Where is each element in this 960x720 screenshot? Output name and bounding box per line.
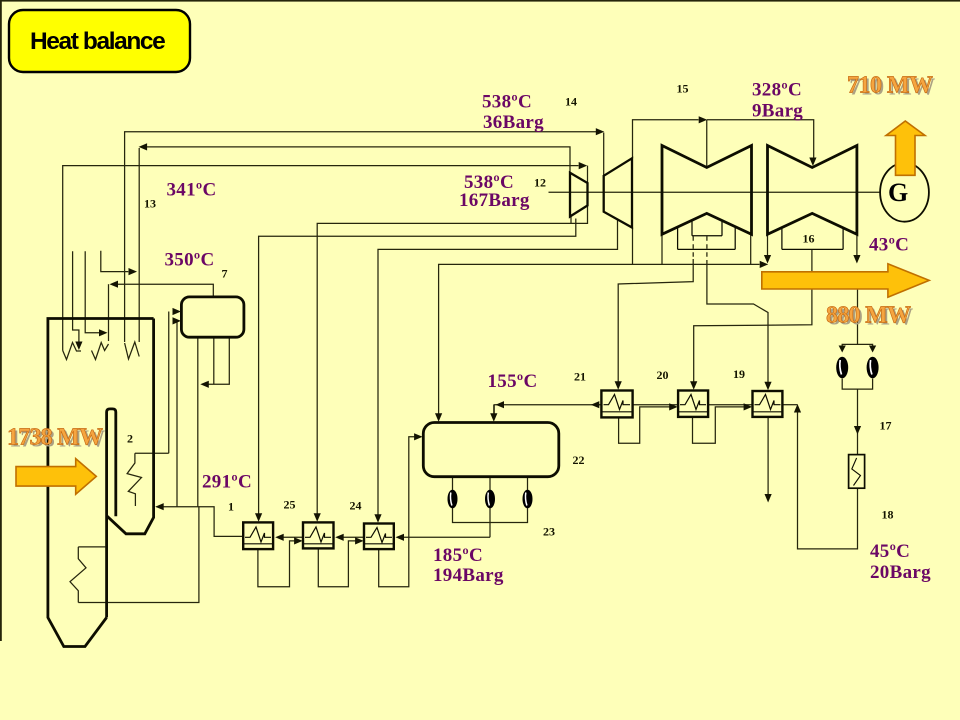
wire LP1 left corner drain (661, 234, 663, 264)
wire deaerator pump stub b (489, 477, 491, 490)
deaerator pump b (485, 490, 495, 509)
svg-text:538ºC: 538ºC (482, 92, 532, 113)
svg-text:18: 18 (882, 508, 894, 522)
arrowhead boiler stub a down (75, 342, 82, 351)
wire crossover to LP2 (707, 120, 814, 158)
wire LP2 right corner to condenser (856, 234, 858, 256)
wire feed riser to drum second (176, 321, 178, 507)
wire LP2 left corner to condenser (767, 234, 769, 256)
wire drum bottom stub b (207, 337, 229, 384)
arrowhead crossover down into LP2 (809, 158, 816, 167)
wire drum downcomer (197, 337, 199, 506)
arrowhead drain 1 into 25 (294, 537, 303, 544)
wire cold reheat horizontal (146, 147, 570, 173)
gland condenser 18 box (849, 455, 865, 489)
wire pump center discharge (489, 508, 491, 537)
wire HP exhaust riser left (570, 217, 572, 224)
svg-text:22: 22 (573, 453, 585, 467)
svg-text:155ºC: 155ºC (488, 371, 538, 392)
wire economizer riser to drum (168, 312, 170, 454)
arrowhead feed into heater 24 (396, 534, 405, 541)
arrowhead into deaerator extraction (435, 413, 442, 422)
arrowhead into heater 25 top (314, 513, 321, 522)
boiler inner wall (107, 409, 116, 618)
svg-text:15: 15 (677, 82, 689, 96)
wire heater 25 to heater 1 feed (283, 536, 304, 538)
superheater zigzag z1 (63, 343, 81, 360)
arrowhead into heater 19 top (764, 382, 771, 391)
LP2 exhaust hood (782, 228, 843, 250)
svg-text:2: 2 (127, 432, 133, 446)
arrowhead downcomer join left (200, 381, 209, 388)
waterwall zigzag z4 (70, 547, 86, 603)
wire hot reheat drop to IP inlet (603, 133, 605, 176)
svg-text:1738 MW: 1738 MW (7, 425, 103, 451)
boiler right wall and backpass funnel (107, 319, 154, 534)
arrowhead drain 24 into deaerator (414, 433, 423, 440)
arrowhead condenser pump a down (839, 346, 846, 353)
svg-text:194Barg: 194Barg (433, 565, 504, 586)
wire condenser pump manifold top (842, 344, 872, 351)
wire economizer top horizontal (135, 452, 169, 454)
wire LP1 extraction to heater 21 (618, 259, 693, 382)
wire IP extraction to heater 24 (378, 220, 618, 516)
LP heater 21 box (601, 391, 632, 418)
gland condenser internals (852, 458, 861, 486)
LP1 exhaust inner hood (692, 221, 722, 236)
condenser pump ellipse b (867, 357, 879, 379)
svg-text:19: 19 (733, 367, 745, 381)
arrow 1738 MW input (16, 459, 96, 495)
svg-text:185ºC: 185ºC (433, 545, 483, 566)
wire heater 1 drain loop (258, 541, 296, 587)
arrowhead condensate into heater 19 up (794, 404, 801, 413)
arrowhead cold reheat left (139, 143, 148, 150)
wire heater 25 drain loop (318, 541, 356, 587)
arrowhead into drum upper (173, 308, 182, 315)
IP turbine (604, 158, 632, 227)
svg-text:341ºC: 341ºC (167, 180, 217, 201)
reheater zigzag z3 (125, 342, 140, 359)
economizer zigzag 2 (127, 453, 141, 506)
arrowhead LP2 right corner down (853, 255, 860, 264)
wire LP1 extraction to heater 19 (707, 260, 768, 382)
svg-text:1: 1 (228, 500, 234, 514)
wire drum line drop into boiler (108, 284, 110, 341)
wire heater 19 inlet from right (782, 404, 797, 406)
arrowhead LP2 left corner down (764, 255, 771, 264)
waterwall zigzag top shelf (78, 546, 105, 548)
wire HP extraction to heater 1 (259, 219, 576, 515)
arrowhead into heater 24 top (374, 514, 381, 523)
wire LP1 extraction dashed b (706, 236, 708, 260)
condenser pump ellipse a (836, 357, 848, 379)
LP heater 19 box (753, 391, 783, 417)
arrowhead header into condenser (760, 261, 769, 268)
wire heater 19 drain (767, 417, 769, 495)
arrowhead 155C into deaerator down (490, 413, 497, 422)
svg-text:13: 13 (144, 197, 156, 211)
LP heater 20 box (678, 391, 708, 417)
wire LP2 extraction to heater 20 (694, 289, 812, 382)
wire heater 21 drain loop (619, 407, 670, 443)
arrowhead feed into heater 1 (275, 534, 284, 541)
wire main steam line 12 (63, 166, 579, 351)
arrowhead drain 25 into 24 (355, 537, 364, 544)
svg-text:23: 23 (543, 525, 555, 539)
arrowhead drum line into boiler left (110, 281, 119, 288)
wire hot reheat horizontal 14 (125, 132, 597, 342)
wire condensate 21 to deaerator 155C (494, 405, 601, 414)
wire heater 24 drain to deaerator (379, 437, 415, 587)
frame top edge (0, 0, 960, 2)
svg-text:21: 21 (574, 370, 586, 384)
wire pump manifold (453, 508, 528, 523)
svg-text:328ºC: 328ºC (752, 80, 802, 101)
arrowhead into heater 21 top (615, 381, 622, 390)
wire IP exhaust header to deaerator and condenser (439, 264, 760, 414)
wire cold reheat downcomer (138, 148, 140, 342)
arrow 710 MW up (886, 121, 925, 175)
LP turbine 1 (662, 146, 752, 235)
svg-text:167Barg: 167Barg (459, 190, 530, 211)
wire gland condenser outlet 18 (798, 407, 858, 549)
arrowhead condenser pump b down (869, 346, 876, 353)
wire heater 24 to heater 25 feed (343, 536, 365, 538)
deaerator pump a (448, 490, 458, 509)
svg-text:43ºC: 43ºC (869, 235, 909, 256)
LP turbine 2 (768, 146, 857, 235)
wire drum top to boiler (117, 284, 214, 297)
arrowhead drain 20 into 19 (744, 403, 753, 410)
svg-text:20Barg: 20Barg (870, 562, 931, 583)
HP heater 25 box (303, 522, 334, 548)
arrowhead 155C left mid (496, 401, 505, 408)
svg-text:Heat balance: Heat balance (30, 28, 165, 55)
wire deaerator pump stub c (527, 477, 529, 490)
LP1 exhaust outer hood (678, 228, 736, 250)
svg-text:G: G (888, 178, 908, 207)
HP heater 25 internals (303, 527, 334, 544)
wire boiler stub b (85, 251, 100, 333)
arrowhead into heater 1 top (255, 513, 262, 522)
wire crossover branch into LP1 (706, 120, 708, 168)
LP heater 21 internals (601, 395, 632, 412)
svg-text:17: 17 (880, 419, 892, 433)
HP heater 24 box (364, 524, 394, 550)
wire drum bottom stub a (213, 337, 215, 384)
frame left edge (0, 0, 2, 641)
svg-text:710 MW: 710 MW (847, 73, 933, 99)
arrowhead feed into furnace wall (155, 503, 164, 510)
arrowhead feed into heater 25 (335, 534, 344, 541)
wire condensate to pumps (857, 289, 859, 344)
wire crossover 15 (633, 120, 699, 159)
deaerator tank 22 (423, 423, 559, 477)
wire boiler stub a (73, 251, 79, 341)
LP heater 19 internals (753, 395, 783, 412)
wire boiler stub c (101, 251, 129, 272)
svg-text:7: 7 (222, 267, 228, 281)
wire LP2 extraction upper (811, 249, 813, 272)
arrowhead condensate line 17 down (854, 426, 861, 435)
svg-text:25: 25 (284, 498, 296, 512)
wire IP corner drain riser (632, 228, 634, 265)
arrowhead crossover right (699, 116, 708, 123)
arrowhead 155C left near heater 21 (591, 401, 600, 408)
wire pump discharge to heater 24 (402, 536, 490, 538)
wire LP1 extraction dashed a (692, 236, 694, 259)
arrowhead hot reheat right (596, 128, 605, 135)
wire heater 1 outlet to economizer (157, 507, 244, 537)
svg-text:45ºC: 45ºC (870, 541, 910, 562)
svg-text:291ºC: 291ºC (202, 472, 252, 493)
generator G (880, 163, 929, 222)
wire shaft line (549, 191, 881, 193)
svg-text:880 MW: 880 MW (826, 303, 911, 329)
arrowhead boiler stub b right (99, 329, 108, 336)
arrowhead into drum lower (173, 317, 182, 324)
arrowhead drain 21 into 20 (669, 403, 678, 410)
superheater zigzag z2 (92, 343, 109, 360)
svg-text:20: 20 (657, 368, 669, 382)
deaerator pump c (523, 490, 533, 509)
arrow 880 MW output (762, 264, 929, 297)
wire deaerator pump stub a (452, 477, 454, 490)
svg-text:24: 24 (350, 499, 362, 513)
wire condensate 19 to 20 (708, 404, 752, 406)
svg-text:12: 12 (534, 176, 546, 190)
boiler furnace outline (48, 319, 154, 647)
arrowhead into heater 20 top (690, 381, 697, 390)
wire condensate line 17 (857, 389, 859, 455)
wire condenser pump manifold bottom (842, 379, 872, 390)
HP heater 1 box (243, 522, 273, 549)
wire LP1 right corner drain (750, 234, 752, 264)
wire condensate 20 to 21 (633, 404, 679, 406)
arrowhead boiler stub c right (129, 268, 138, 275)
svg-text:16: 16 (803, 232, 815, 246)
arrowhead main steam right (579, 162, 588, 169)
wire main steam drop to HP inlet (587, 166, 589, 183)
wire heater 20 drain loop (693, 407, 745, 443)
HP turbine (570, 173, 588, 217)
title box Heat balance (9, 10, 190, 72)
wire extraction into deaerator 155C drop (493, 405, 495, 415)
wire HP extraction to heater 25 (317, 206, 587, 515)
HP heater 24 internals (364, 528, 394, 544)
HP heater 1 internals (243, 527, 273, 544)
wire downcomer lower leg (78, 507, 199, 603)
arrowhead heater 19 drain down (765, 494, 772, 503)
svg-text:9Barg: 9Barg (752, 101, 803, 122)
steam drum 7 (181, 297, 244, 337)
svg-text:36Barg: 36Barg (483, 112, 544, 133)
svg-text:14: 14 (565, 95, 577, 109)
LP heater 20 internals (678, 395, 708, 412)
svg-text:350ºC: 350ºC (165, 250, 215, 271)
